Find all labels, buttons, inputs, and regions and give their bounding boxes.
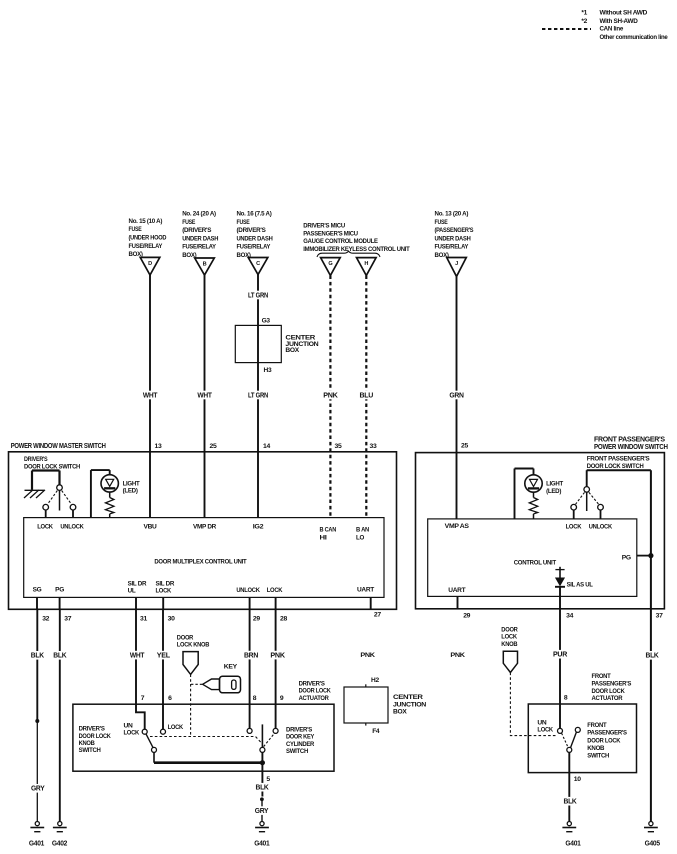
svg-text:FUSE: FUSE	[435, 219, 449, 226]
CAN wire PNK (dashed)	[322, 276, 339, 518]
door multiplex control unit box	[24, 518, 384, 598]
svg-text:No. 15 (10 A): No. 15 (10 A)	[129, 218, 163, 225]
lever dashed (passenger)	[562, 733, 569, 747]
svg-text:F4: F4	[372, 728, 380, 735]
svg-text:DRIVER'S: DRIVER'S	[24, 456, 48, 463]
svg-text:25: 25	[461, 443, 468, 450]
mechanical linkage dashed (actuator)	[150, 737, 262, 744]
svg-text:28: 28	[280, 616, 287, 623]
svg-text:LOCK: LOCK	[168, 724, 184, 731]
svg-text:DRIVER'S: DRIVER'S	[79, 726, 106, 733]
svg-text:ACTUATOR: ACTUATOR	[592, 695, 623, 702]
resistor (passenger LED)	[529, 492, 537, 519]
svg-text:LOCK: LOCK	[156, 588, 172, 595]
center junction box (top)	[235, 325, 319, 362]
svg-text:IMMOBILIZER KEYLESS CONTROL UN: IMMOBILIZER KEYLESS CONTROL UNIT	[303, 246, 409, 253]
svg-text:DOOR KEY: DOOR KEY	[286, 734, 315, 741]
wire pivot down to pin 5	[254, 752, 270, 796]
driver's door lock actuator box	[73, 704, 334, 771]
svg-text:10: 10	[574, 776, 581, 783]
front passenger's door lock actuator box	[528, 704, 636, 773]
svg-text:B AN: B AN	[356, 526, 370, 533]
wire PG / door lock switch to pin 37	[644, 470, 659, 821]
svg-text:SWITCH: SWITCH	[587, 753, 609, 760]
svg-text:IG2: IG2	[253, 523, 264, 530]
svg-text:FRONT: FRONT	[587, 722, 606, 729]
label PG	[55, 587, 64, 594]
label PG	[622, 555, 631, 562]
front passenger's power window switch title	[594, 436, 668, 451]
svg-text:9: 9	[280, 695, 284, 702]
svg-text:Without SH AWD: Without SH AWD	[600, 10, 648, 17]
knob linkage dashed (passenger)	[510, 673, 557, 736]
svg-text:PASSENGER'S MICU: PASSENGER'S MICU	[303, 230, 358, 237]
svg-text:J: J	[455, 261, 458, 267]
stub SIL DR LOCK pin 30	[163, 597, 175, 622]
pin 25 (passenger switch)	[461, 443, 468, 450]
pin 35	[335, 443, 342, 450]
svg-text:*1: *1	[581, 10, 587, 17]
label UNLOCK (passenger)	[589, 523, 613, 530]
svg-text:WHT: WHT	[197, 392, 212, 399]
note *2	[581, 18, 638, 25]
svg-text:VMP AS: VMP AS	[445, 523, 470, 530]
svg-text:SWITCH: SWITCH	[286, 748, 309, 755]
svg-text:LIGHT: LIGHT	[546, 480, 563, 487]
wire VBU	[149, 452, 151, 518]
label B AN LO	[356, 526, 370, 541]
knob linkage dashed (driver)	[190, 674, 192, 736]
label B CAN HI	[320, 526, 337, 541]
svg-text:KNOB: KNOB	[587, 745, 605, 752]
svg-text:SIL DR: SIL DR	[156, 580, 175, 587]
svg-text:C: C	[256, 261, 260, 267]
svg-text:YEL: YEL	[157, 652, 171, 659]
label UNLOCK	[236, 587, 260, 594]
svg-text:UNLOCK: UNLOCK	[236, 587, 260, 594]
svg-text:PNK: PNK	[323, 392, 338, 399]
svg-text:H3: H3	[264, 367, 272, 374]
svg-text:LOCK: LOCK	[537, 727, 553, 734]
svg-text:UNLOCK: UNLOCK	[589, 523, 613, 530]
svg-text:SWITCH: SWITCH	[79, 747, 102, 754]
svg-text:25: 25	[210, 443, 217, 450]
PG stub and junction dot	[637, 553, 654, 558]
svg-text:UL: UL	[128, 588, 136, 595]
fuse D label No.15	[129, 218, 167, 258]
wire WHT pin31 to actuator pin 7	[129, 609, 146, 729]
svg-text:PASSENGER'S: PASSENGER'S	[587, 730, 627, 737]
svg-text:FUSE: FUSE	[237, 219, 251, 226]
svg-text:ACTUATOR: ACTUATOR	[299, 695, 330, 702]
LED wires (passenger switch)	[515, 469, 534, 519]
svg-text:DOOR LOCK: DOOR LOCK	[79, 733, 112, 740]
pin 37 (passenger)	[656, 612, 663, 619]
svg-text:D: D	[148, 261, 152, 267]
PNK contact (key cylinder switch)	[273, 728, 278, 733]
driver's door lock switch bus wire	[32, 471, 60, 490]
front passenger's door lock knob switch label	[587, 722, 627, 760]
wire GRY to G401 (center)	[254, 801, 270, 822]
center junction box (bottom)	[344, 687, 427, 723]
bracket over connectors G and H	[317, 251, 380, 257]
ground G405	[644, 822, 660, 848]
svg-text:HI: HI	[320, 534, 328, 541]
svg-text:SIL AS UL: SIL AS UL	[567, 582, 593, 589]
node F4	[366, 723, 380, 735]
driver's door lock switch label	[24, 456, 81, 470]
svg-text:LT GRN: LT GRN	[248, 392, 268, 399]
svg-text:BLK: BLK	[53, 653, 66, 660]
svg-text:G401: G401	[254, 840, 270, 847]
svg-text:DRIVER'S MICU: DRIVER'S MICU	[303, 222, 345, 229]
pin 8	[253, 695, 257, 702]
ground G402	[52, 822, 68, 848]
svg-text:BLK: BLK	[646, 653, 659, 660]
connector B	[195, 258, 215, 275]
wire GRY to G401	[30, 722, 46, 821]
svg-text:(DRIVER'S: (DRIVER'S	[182, 227, 212, 234]
svg-text:FRONT: FRONT	[592, 673, 611, 680]
label SIL DR UL	[128, 580, 147, 594]
svg-text:BOX: BOX	[393, 709, 407, 716]
wire BRN pin29 to actuator pin 8	[243, 609, 259, 728]
svg-text:FUSE/RELAY: FUSE/RELAY	[182, 244, 216, 251]
key cylinder rod	[261, 724, 263, 747]
svg-text:G: G	[328, 261, 332, 267]
pin 7	[141, 695, 145, 702]
connector G	[321, 258, 341, 276]
node H3	[264, 367, 272, 374]
key cylinder lever dashed	[264, 734, 275, 747]
door lock knob symbol (passenger)	[503, 651, 517, 672]
key linkage dashed	[191, 683, 203, 685]
svg-text:FUSE/RELAY: FUSE/RELAY	[435, 244, 469, 251]
svg-text:H2: H2	[371, 677, 379, 684]
svg-text:FUSE: FUSE	[182, 219, 196, 226]
fuse C label No.16	[237, 211, 273, 260]
knob switch pivot	[152, 747, 157, 752]
door lock knob symbol (driver)	[183, 652, 198, 675]
connector D	[140, 257, 160, 275]
label VMP AS	[445, 523, 470, 530]
pin 13	[155, 443, 162, 450]
svg-text:UNLOCK: UNLOCK	[60, 523, 84, 530]
svg-text:CENTER: CENTER	[393, 694, 423, 701]
node G3	[262, 317, 271, 324]
wire YEL pin30 to actuator pin 6	[156, 609, 171, 729]
svg-text:(LED): (LED)	[546, 488, 561, 495]
svg-text:LT GRN: LT GRN	[248, 292, 268, 299]
svg-text:LO: LO	[356, 534, 364, 541]
svg-text:PG: PG	[55, 587, 64, 594]
svg-text:LIGHT: LIGHT	[123, 480, 140, 487]
svg-text:BLK: BLK	[564, 799, 577, 806]
wire PNK pin28 to actuator pin 9	[269, 609, 286, 728]
pin 25	[210, 443, 217, 450]
svg-text:DRIVER'S: DRIVER'S	[299, 680, 326, 687]
svg-text:DOOR LOCK SWITCH: DOOR LOCK SWITCH	[24, 463, 81, 470]
svg-text:BOX: BOX	[285, 347, 299, 354]
svg-text:DOOR: DOOR	[177, 634, 194, 641]
ground G401 (center)	[254, 822, 270, 848]
svg-text:BLU: BLU	[360, 392, 374, 399]
wire GRN fuse J to VMP AS	[448, 277, 465, 519]
svg-text:29: 29	[253, 616, 260, 623]
stub SIL DR UL pin 31	[136, 597, 147, 622]
svg-text:B CAN: B CAN	[320, 526, 337, 533]
driver's door lock actuator label	[299, 680, 332, 701]
switch levers dashed (passenger)	[576, 492, 599, 504]
svg-text:KEY: KEY	[224, 663, 238, 670]
svg-text:8: 8	[564, 695, 568, 702]
svg-text:PNK: PNK	[450, 652, 465, 659]
stub UNLOCK pin 29	[250, 597, 261, 622]
svg-text:GAUGE CONTROL MODULE: GAUGE CONTROL MODULE	[303, 238, 378, 245]
svg-text:LOCK: LOCK	[267, 587, 283, 594]
UN LOCK contact (passenger)	[558, 728, 563, 733]
splice dot (BLK/GRY)	[260, 797, 264, 801]
wire IG2	[257, 452, 259, 518]
label UN LOCK (passenger)	[537, 719, 553, 733]
svg-text:JUNCTION: JUNCTION	[393, 701, 427, 708]
svg-text:GRY: GRY	[31, 786, 45, 793]
svg-text:No. 16 (7.5 A): No. 16 (7.5 A)	[237, 211, 272, 218]
svg-text:PASSENGER'S: PASSENGER'S	[592, 680, 633, 687]
key label	[224, 663, 238, 670]
svg-text:UN: UN	[537, 719, 547, 726]
svg-text:BLK: BLK	[31, 653, 44, 660]
stub UART pin 27	[371, 597, 382, 618]
svg-text:LOCK KNOB: LOCK KNOB	[177, 642, 210, 649]
label UNLOCK	[60, 523, 84, 530]
svg-text:LOCK: LOCK	[37, 523, 53, 530]
label LOCK	[37, 523, 53, 530]
legend CAN line sample	[542, 26, 624, 33]
svg-text:CAN line: CAN line	[600, 26, 624, 33]
stub LOCK pin 28	[276, 597, 288, 622]
UN LOCK contact	[142, 729, 147, 734]
control unit box (passenger)	[428, 519, 637, 597]
svg-text:No. 24 (20 A): No. 24 (20 A)	[182, 211, 216, 218]
stub UART pin 29 (passenger)	[458, 596, 471, 619]
wire WHT from fuse D to pin 13	[142, 275, 159, 452]
stub SG pin 32	[37, 597, 50, 622]
svg-text:LOCK: LOCK	[124, 730, 140, 737]
pin 33	[370, 443, 377, 450]
wire BLK from pin 37 to G402	[52, 609, 67, 821]
svg-text:35: 35	[335, 443, 342, 450]
pin 34	[566, 613, 573, 620]
svg-text:SG: SG	[33, 587, 42, 594]
svg-text:27: 27	[374, 611, 381, 618]
svg-text:Other communication line: Other communication line	[600, 34, 669, 41]
svg-text:BLK: BLK	[256, 785, 269, 792]
svg-text:FRONT PASSENGER'S: FRONT PASSENGER'S	[587, 456, 651, 463]
svg-text:DOOR: DOOR	[501, 626, 518, 633]
CAN wire BLU (dashed)	[358, 276, 374, 518]
splice dot	[35, 719, 39, 723]
label IG2	[253, 523, 264, 530]
front passenger's door lock switch label	[587, 456, 651, 471]
svg-text:LOCK: LOCK	[566, 523, 582, 530]
label SIL DR LOCK	[156, 580, 175, 594]
svg-text:G405: G405	[645, 840, 661, 847]
common bus (thick)	[154, 761, 262, 764]
svg-text:13: 13	[155, 443, 162, 450]
connector J	[447, 258, 467, 277]
resistor (master switch LED)	[106, 492, 114, 518]
label PNK (UART driver)	[360, 652, 375, 659]
ground G401 (passenger)	[562, 822, 581, 848]
svg-text:CONTROL UNIT: CONTROL UNIT	[514, 559, 556, 566]
front passenger's power window switch box	[416, 453, 665, 609]
switch levers (driver, dashed)	[48, 491, 72, 505]
svg-text:G402: G402	[52, 840, 68, 847]
LED wires (master switch)	[90, 470, 92, 517]
label VBU	[144, 523, 158, 530]
wire PUR diode to actuator pin 8	[552, 587, 568, 729]
fuse J label No.13	[435, 211, 474, 260]
svg-text:34: 34	[566, 613, 573, 620]
label UART (passenger)	[448, 587, 465, 594]
pin 14	[263, 443, 270, 450]
svg-text:UNDER DASH: UNDER DASH	[182, 235, 218, 242]
LOCK contact (driver)	[43, 504, 49, 517]
svg-text:VMP DR: VMP DR	[193, 523, 217, 530]
svg-text:CYLINDER: CYLINDER	[286, 741, 315, 748]
svg-text:DOOR LOCK: DOOR LOCK	[592, 688, 626, 695]
svg-text:BRN: BRN	[244, 652, 258, 659]
svg-text:32: 32	[42, 616, 49, 623]
label SG	[33, 587, 42, 594]
svg-text:30: 30	[168, 616, 175, 623]
svg-text:DRIVER'S: DRIVER'S	[286, 727, 313, 734]
svg-text:SIL DR: SIL DR	[128, 580, 147, 587]
driver's door key cylinder switch label	[286, 727, 315, 755]
svg-text:FUSE/RELAY: FUSE/RELAY	[237, 244, 271, 251]
svg-text:DOOR MULTIPLEX CONTROL UNIT: DOOR MULTIPLEX CONTROL UNIT	[154, 559, 246, 566]
front passenger's door lock actuator label	[592, 673, 633, 702]
svg-text:37: 37	[64, 616, 71, 623]
svg-text:5: 5	[266, 776, 270, 783]
svg-text:7: 7	[141, 695, 145, 702]
label VMP DR	[193, 523, 217, 530]
legend other communication line	[600, 34, 669, 41]
LOCK contact (passenger)	[571, 504, 577, 519]
svg-text:LOCK: LOCK	[501, 634, 517, 641]
svg-text:GRY: GRY	[255, 808, 269, 815]
label MICU control units	[303, 222, 409, 253]
open contact (passenger)	[575, 727, 580, 732]
svg-text:FUSE/RELAY: FUSE/RELAY	[129, 243, 163, 250]
svg-text:FUSE: FUSE	[129, 226, 143, 233]
svg-text:31: 31	[140, 616, 147, 623]
switch common contact (passenger)	[584, 487, 590, 511]
note *1	[581, 10, 647, 17]
knob switch lever	[146, 734, 153, 748]
svg-text:DOOR LOCK: DOOR LOCK	[299, 688, 332, 695]
svg-text:DOOR LOCK: DOOR LOCK	[587, 737, 621, 744]
label PNK (UART passenger)	[450, 652, 465, 659]
svg-text:DOOR LOCK SWITCH: DOOR LOCK SWITCH	[587, 463, 644, 470]
switch common contact (driver)	[57, 485, 63, 511]
label UN LOCK (driver knob switch)	[124, 723, 140, 737]
pivot contact (passenger)	[567, 747, 572, 752]
svg-text:PG: PG	[622, 555, 631, 562]
svg-text:29: 29	[463, 613, 470, 620]
pin 9	[280, 695, 284, 702]
fuse B label No.24	[182, 211, 218, 260]
wire pivot to pin 10 and G401	[562, 752, 581, 821]
svg-text:With SH-AWD: With SH-AWD	[600, 18, 639, 25]
wire pivot to common bus	[153, 752, 155, 762]
svg-text:(UNDER HOOD: (UNDER HOOD	[129, 235, 167, 242]
svg-text:6: 6	[168, 695, 172, 702]
power window master switch box	[9, 443, 397, 609]
junction dot (actuator common)	[260, 760, 265, 765]
svg-text:H: H	[364, 261, 368, 267]
lever solid (passenger)	[571, 732, 577, 747]
wire through junction box	[257, 325, 259, 362]
chassis ground (driver switch)	[24, 490, 45, 498]
label LOCK	[267, 587, 283, 594]
wire WHT from fuse B to pin 25	[196, 275, 213, 452]
diode SIL AS UL	[555, 567, 593, 589]
key cylinder pivot	[260, 747, 265, 752]
light LED (passenger switch)	[525, 475, 563, 495]
light LED (master switch)	[101, 475, 140, 495]
connector H	[357, 258, 377, 276]
driver's door lock knob switch label	[79, 726, 112, 754]
pin 6	[168, 695, 172, 702]
UNLOCK contact (passenger)	[598, 504, 604, 519]
svg-text:14: 14	[263, 443, 270, 450]
svg-text:B: B	[203, 262, 207, 268]
svg-text:POWER WINDOW SWITCH: POWER WINDOW SWITCH	[594, 444, 668, 451]
door lock knob label (passenger)	[501, 626, 518, 647]
connector C	[248, 258, 268, 275]
svg-text:No. 13 (20 A): No. 13 (20 A)	[435, 211, 469, 218]
LOCK contact	[161, 724, 184, 734]
svg-text:8: 8	[253, 695, 257, 702]
door lock switch wire (passenger)	[587, 470, 651, 486]
key symbol	[203, 676, 241, 693]
svg-text:G3: G3	[262, 317, 271, 324]
svg-text:UART: UART	[357, 587, 374, 594]
svg-text:PUR: PUR	[553, 652, 567, 659]
svg-text:GRN: GRN	[449, 392, 464, 399]
label LOCK (passenger)	[566, 523, 582, 530]
svg-text:KNOB: KNOB	[79, 740, 96, 747]
svg-text:*2: *2	[581, 18, 587, 25]
wire BLK from pin 32	[30, 609, 45, 720]
svg-text:POWER WINDOW MASTER SWITCH: POWER WINDOW MASTER SWITCH	[11, 443, 106, 450]
svg-text:G401: G401	[565, 840, 581, 847]
svg-text:33: 33	[370, 443, 377, 450]
svg-text:FRONT PASSENGER'S: FRONT PASSENGER'S	[594, 436, 665, 443]
svg-text:PNK: PNK	[360, 652, 375, 659]
svg-text:WHT: WHT	[130, 652, 145, 659]
svg-text:WHT: WHT	[143, 392, 158, 399]
wire LT GRN junction box to pin 14	[247, 363, 270, 452]
wire VMP DR	[204, 452, 206, 518]
svg-text:(LED): (LED)	[123, 488, 138, 495]
svg-text:KNOB: KNOB	[501, 641, 518, 648]
svg-text:PNK: PNK	[270, 652, 285, 659]
svg-text:(PASSENGER'S: (PASSENGER'S	[435, 227, 474, 234]
svg-text:(DRIVER'S: (DRIVER'S	[237, 227, 267, 234]
